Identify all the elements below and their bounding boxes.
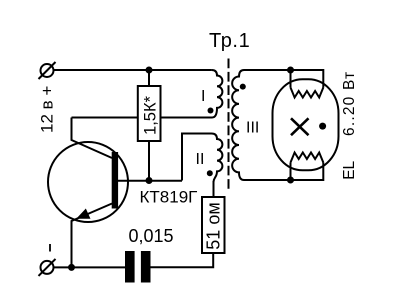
svg-text:КТ819Г: КТ819Г: [140, 188, 198, 207]
wire top rail (+12V): [53, 69, 211, 71]
lamp filament bottom: [291, 153, 324, 163]
capacitor C1 plate left: [125, 251, 135, 283]
transistor Q1 emitter line: [72, 204, 113, 268]
lamp dot: [319, 123, 326, 130]
wire lamp bottom tap: [290, 163, 292, 181]
phase dot winding II: [207, 170, 213, 176]
terminal XS1 +: [41, 64, 54, 77]
svg-text:12 в +: 12 в +: [38, 86, 57, 133]
transistor Q1 circle: [48, 142, 128, 222]
label −: [49, 244, 51, 252]
node junction dot R1 bottom / base: [146, 177, 153, 184]
resistor R2 lead bottom: [151, 253, 214, 267]
node junction dot emitter: [68, 264, 75, 271]
lamp filament top: [291, 88, 324, 98]
wire secondary bottom: [244, 163, 323, 181]
svg-text:51 ом: 51 ом: [203, 202, 223, 249]
lamp EL outline: [273, 79, 339, 170]
wire bottom rail left: [53, 266, 125, 268]
lamp X mark: [291, 118, 309, 135]
terminal XS2 −: [41, 261, 54, 274]
transistor Q1 emitter arrow: [77, 209, 89, 218]
node junction dot R1 top: [146, 67, 153, 74]
transformer winding II: [212, 134, 223, 198]
node junction dot lamp bottom: [287, 177, 294, 184]
svg-text:6..20 Вт: 6..20 Вт: [341, 71, 358, 136]
resistor R1 lead bottom: [148, 141, 150, 181]
svg-text:Тр.1: Тр.1: [209, 30, 250, 52]
wire collector to winding I bottom: [72, 117, 213, 119]
svg-text:EL: EL: [341, 160, 358, 179]
wire secondary top: [244, 70, 323, 88]
svg-text:II: II: [196, 151, 205, 168]
transformer core: [228, 59, 230, 191]
svg-text:III: III: [246, 120, 259, 137]
phase dot winding I: [208, 108, 214, 114]
transformer winding III: [232, 70, 244, 180]
capacitor C1 plate right: [141, 251, 151, 283]
resistor R1 1,5К*: [138, 86, 161, 141]
resistor R2 51 ом: [202, 197, 225, 253]
svg-text:I: I: [201, 88, 205, 105]
transistor Q1 base wire: [118, 180, 182, 182]
resistor R2 lead top: [213, 181, 215, 197]
transformer winding I: [212, 70, 223, 118]
resistor R1 lead top: [148, 70, 150, 86]
svg-text:1,5К*: 1,5К*: [142, 95, 160, 135]
node junction dot lamp top: [287, 67, 294, 74]
wire lamp top tap: [290, 70, 292, 88]
svg-text:0,015: 0,015: [129, 226, 174, 246]
transistor Q1 collector line: [72, 118, 113, 159]
transistor Q1 base bar: [112, 152, 118, 209]
wire base to winding II top: [182, 134, 212, 181]
phase dot winding III: [240, 84, 246, 90]
